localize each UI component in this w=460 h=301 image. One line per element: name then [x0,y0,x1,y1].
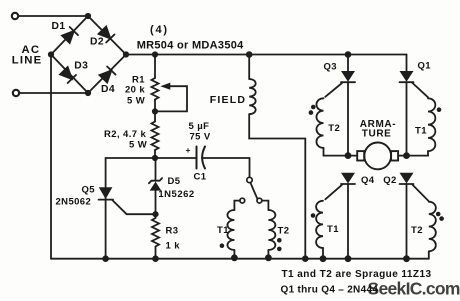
wire wiper loop [155,86,187,111]
node bridge top [85,13,91,19]
svg-text:Q1: Q1 [418,61,432,72]
node rail at R3 [152,255,159,262]
svg-text:R2, 4.7 k: R2, 4.7 k [104,129,146,140]
SCR Q5 [105,158,107,259]
SCR Q1 [400,71,414,82]
resistor R1 [152,78,159,100]
wire bottom rail [51,258,429,260]
node rail at Q2 [403,255,410,262]
svg-text:T1: T1 [217,225,229,236]
wire Q4 gate [325,185,342,200]
node top rail at Q3 [345,51,352,58]
node D5/R3/gate junction [152,211,158,217]
svg-text:D4: D4 [101,84,115,95]
wire bridge arm top-left [51,16,88,55]
switch pole terminal [247,177,252,182]
SCR Q4 [341,173,355,184]
svg-text:+: + [186,145,191,155]
svg-text:T2: T2 [411,225,423,236]
wire R1 branch top [154,55,156,79]
wire R3 bottom [155,247,157,259]
wire Q5 gate [113,200,156,214]
svg-text:D3: D3 [74,60,88,71]
svg-text:T2: T2 [328,123,340,134]
diode D2 [98,26,114,42]
svg-text:Q4: Q4 [361,175,375,186]
node top rail at FIELD [246,51,253,58]
wire Q1 anode drop [406,55,408,72]
node rail at T1 lower [320,255,327,262]
capacitor C1 [197,147,206,169]
wire rail right end up to T2 [428,252,430,259]
wire Q3 gate [325,83,342,97]
transformer T1 middle winding [234,201,239,210]
svg-text:75 V: 75 V [190,132,211,143]
node rail at Q4 [345,255,352,262]
svg-text:C1: C1 [194,172,207,183]
zener diode D5 [155,158,157,181]
phasing dots T2 middle [277,238,282,243]
svg-text:5 W: 5 W [129,140,147,151]
svg-text:Q2: Q2 [383,175,396,186]
node bridge left [48,51,54,57]
phasing dots T2 upper [311,105,316,110]
diode D1 [62,27,78,43]
potentiometer wiper arrow R1 [160,83,170,90]
svg-text:D2: D2 [90,37,104,48]
switch blade [250,183,257,199]
switch contact left [240,198,245,203]
wire bridge arm bottom-left [51,55,88,94]
terminal bottom-left [13,90,19,96]
svg-text:LINE: LINE [12,54,43,66]
node top rail at R1 [152,51,158,57]
wire FIELD return [249,114,305,259]
phasing dot T1 middle [220,243,225,248]
transformer T2 lower winding [429,202,436,252]
terminal top-left [12,13,18,19]
wire horizontal y158 [106,157,197,159]
svg-text:T2: T2 [278,226,290,237]
svg-text:5 W: 5 W [127,96,145,107]
inductor FIELD [248,55,250,80]
phasing dot T1 upper [437,107,442,112]
svg-text:D5: D5 [168,176,181,187]
transformer T1 lower winding [316,201,323,248]
wire Q1 gate [413,83,429,97]
svg-text:R3: R3 [166,226,179,237]
svg-text:Q5: Q5 [82,185,96,196]
svg-text:MR504 or MDA3504: MR504 or MDA3504 [137,39,244,51]
svg-text:5 µF: 5 µF [189,121,210,132]
phasing dots T2 lower [436,212,441,217]
phasing dot T1 lower [311,213,316,218]
wire DC negative: bridge left node down [50,55,52,259]
diode D3 [60,67,76,83]
svg-text:2N5062: 2N5062 [56,197,92,208]
wire C1 right [202,158,250,177]
svg-text:TURE: TURE [362,129,392,140]
SCR Q3 [347,55,349,72]
transformer T2 middle winding [262,201,269,210]
switch contact right [257,198,262,203]
node rail at T2 middle [265,254,272,261]
resistor R3 [152,218,159,247]
wire bottom AC line [20,92,88,94]
svg-text:1 k: 1 k [166,241,181,252]
svg-text:D1: D1 [52,21,66,32]
resistor R2 [152,122,159,151]
wire R1 to R2 [154,100,156,122]
wire bridge arm top-right [88,16,126,55]
svg-text:Q3: Q3 [324,62,337,73]
svg-text:T1: T1 [415,126,427,137]
armature motor [348,155,357,157]
svg-text:T1: T1 [327,224,339,235]
diode D4 [99,67,115,83]
node rail at T1 middle [231,254,238,261]
wire top rail [126,54,407,56]
wire bridge arm bottom-right [88,55,126,94]
node R1 bottom [152,108,158,114]
node rail at field return [302,255,309,262]
svg-text:(4): (4) [150,24,169,36]
node armature left [345,152,352,159]
SCR Q2 [400,173,414,184]
svg-text:FIELD: FIELD [210,94,246,106]
transformer T2 upper winding [316,98,323,148]
svg-text:20 k: 20 k [125,85,145,96]
transformer T1 upper winding [428,98,435,151]
svg-text:Q1 thru Q4 – 2N444: Q1 thru Q4 – 2N444 [281,285,379,296]
wire top AC line [19,15,88,17]
node rail at Q5 [102,255,109,262]
svg-text:SeekIC.com: SeekIC.com [368,278,460,298]
node bridge right [123,51,129,57]
wire Q2 gate [413,185,429,201]
svg-text:1N5262: 1N5262 [158,189,194,200]
node R2/D5/C1 junction [152,155,158,161]
wire R2 bottom [154,150,156,158]
node bridge bottom [85,90,91,96]
node armature right [403,152,410,159]
